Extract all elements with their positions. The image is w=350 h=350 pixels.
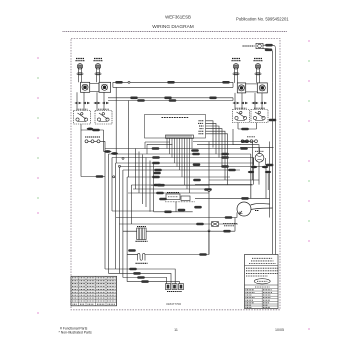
svg-text:11: 11 [174, 328, 178, 332]
main vertical center wire [208, 142, 210, 255]
svg-text:Publication No. 5995452201: Publication No. 5995452201 [236, 16, 289, 21]
ladder junction nodes [113, 157, 124, 178]
right side pin labels [198, 121, 204, 134]
DLB relay under right cluster [233, 123, 257, 145]
vertical leads switch to lower boxes [77, 92, 262, 110]
svg-text:10/05: 10/05 [275, 328, 284, 332]
surface element left-rear [94, 59, 103, 76]
oven lamp assembly [240, 148, 274, 199]
bake element [123, 218, 235, 240]
oven light switch [85, 137, 105, 143]
convection motor [237, 202, 273, 216]
header separator rule [63, 31, 288, 33]
coupling rect between right switches [246, 84, 258, 92]
broil element [127, 231, 209, 261]
oven sensor plug [166, 284, 184, 290]
diagram dashed border frame [71, 38, 280, 309]
left page edge registration dots [37, 57, 39, 314]
EOC right-side wires [206, 121, 228, 185]
wire ladder from EOC to left bundle [105, 149, 266, 194]
surface element right-front [232, 59, 241, 76]
ladder wire labels col 1 [152, 147, 160, 150]
top ladder right extension [193, 142, 259, 185]
electronic oven control box [145, 115, 206, 139]
oven sensor wires [105, 269, 180, 284]
verticals up from buses [113, 82, 128, 177]
right page edge registration dots [308, 40, 310, 330]
EOC bottom pin wires [167, 138, 192, 193]
thermal line to motor [116, 217, 237, 219]
svg-text:318477700: 318477700 [166, 302, 181, 306]
surface switch right-rear (lower, dashed) [251, 110, 268, 123]
ladder wire labels col 3 [221, 153, 229, 156]
wire labels on buses [115, 81, 123, 84]
svg-text:* Non-Illustrated Parts: * Non-Illustrated Parts [59, 330, 92, 334]
ladder wire labels col 2 [191, 149, 199, 152]
thermal fuse line [119, 222, 238, 227]
svg-text:WEF361ESB: WEF361ESB [165, 15, 191, 20]
right area wires [195, 154, 270, 198]
bus wire L1 top [108, 82, 233, 100]
connector darts row left cluster [74, 102, 81, 104]
relay cluster [151, 185, 209, 212]
left vertical wire bundle [105, 141, 154, 281]
bottom connector strip [166, 135, 194, 138]
lower switch box labels [77, 108, 266, 109]
door switch ovals [104, 150, 111, 153]
wire from left switch down [81, 124, 112, 177]
surface switch left-front (lower, dashed) [74, 111, 91, 125]
bottom left data table [71, 276, 117, 306]
svg-text:WIRING DIAGRAM: WIRING DIAGRAM [152, 24, 194, 30]
infinite switch left-front (upper) [81, 82, 90, 92]
infinite switch left-rear (upper) [99, 82, 111, 92]
lead oval below left lower boxes [87, 128, 93, 131]
surface element left-front [76, 59, 85, 76]
surface switch left-rear (lower, dashed) [95, 111, 112, 125]
clock timer top right [243, 43, 276, 254]
right bus verticals [233, 82, 273, 254]
surface element right-rear [254, 59, 263, 76]
coupling rect between left switches [90, 84, 99, 92]
wires burner leads left [79, 68, 260, 83]
infinite switch right-rear (upper) [257, 83, 267, 93]
EOC pin fan to left [145, 142, 173, 154]
infinite switch right-front (upper) [237, 83, 245, 93]
surface switch right-front (lower, dashed) [233, 110, 250, 123]
connector darts row right cluster [232, 102, 239, 104]
legend box [245, 255, 279, 309]
oven lamp bulb [259, 148, 261, 154]
